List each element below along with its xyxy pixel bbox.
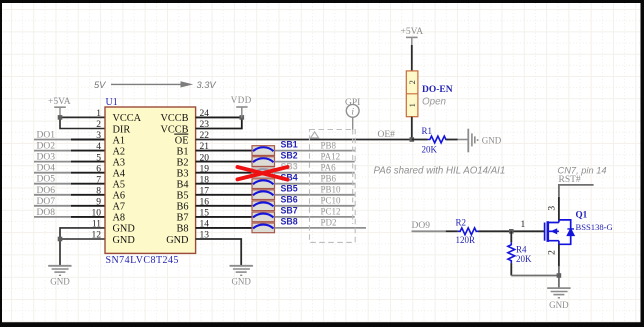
- svg-text:B3: B3: [176, 169, 188, 180]
- wire pin 23 to VDD: [196, 117, 242, 128]
- svg-text:GND: GND: [166, 235, 189, 246]
- wire R1 to ground stub: [458, 139, 469, 141]
- wire pin 21 to SB1: [196, 150, 252, 152]
- svg-text:GND: GND: [231, 277, 251, 287]
- svg-text:SB1: SB1: [281, 139, 298, 149]
- svg-text:11: 11: [92, 220, 101, 230]
- ground (chip right): [230, 266, 253, 287]
- port GPI: [345, 98, 360, 224]
- wire pin 19 to SB3: [196, 172, 252, 174]
- svg-text:U1: U1: [106, 97, 118, 108]
- resistor R2: [458, 228, 479, 235]
- svg-text:3: 3: [96, 131, 101, 141]
- svg-text:DO-EN: DO-EN: [422, 85, 453, 95]
- solder bridge SB1: [252, 146, 275, 156]
- svg-text:PD2: PD2: [321, 218, 337, 228]
- wire DO9: [412, 230, 458, 232]
- ground (chip left): [48, 266, 71, 287]
- svg-text:R1: R1: [422, 126, 433, 136]
- svg-text:120R: 120R: [456, 235, 476, 245]
- wire pin 13 to ground: [196, 239, 242, 266]
- svg-text:A6: A6: [113, 191, 126, 202]
- svg-text:2: 2: [547, 250, 557, 255]
- junction at +5VA/pin1: [58, 115, 63, 120]
- wire OE# net: pin 22 to R1: [196, 139, 412, 141]
- wire +5VA to connector pin 2: [411, 45, 413, 71]
- svg-text:BSS138-G: BSS138-G: [576, 222, 613, 232]
- wire pin 24 to VDD: [196, 116, 242, 118]
- wire SB8 to PD2: [275, 227, 367, 229]
- svg-text:SB7: SB7: [281, 206, 298, 216]
- svg-text:20K: 20K: [422, 145, 438, 155]
- svg-text:8: 8: [96, 186, 101, 196]
- svg-text:GND: GND: [50, 277, 70, 287]
- annotation 5V to 3.3V arrow: [94, 80, 216, 90]
- svg-text:B6: B6: [176, 202, 188, 213]
- wire SB2 to PA12: [275, 161, 355, 163]
- ghost triangle marker: [311, 132, 319, 138]
- svg-text:B4: B4: [176, 180, 188, 191]
- svg-text:A7: A7: [113, 202, 126, 213]
- svg-text:PA12: PA12: [321, 151, 341, 161]
- solder bridge SB4: [252, 179, 275, 189]
- svg-text:PB6: PB6: [321, 174, 337, 184]
- svg-text:CN7, pin 14: CN7, pin 14: [558, 165, 607, 175]
- svg-text:4: 4: [96, 142, 101, 152]
- svg-text:SB6: SB6: [281, 195, 298, 205]
- svg-text:3: 3: [547, 206, 557, 211]
- svg-text:SB2: SB2: [281, 150, 298, 160]
- red X (SB3 not fitted): [238, 167, 288, 180]
- svg-text:SN74LVC8T245: SN74LVC8T245: [106, 255, 179, 266]
- wire R2 to Q1 gate: [478, 230, 544, 232]
- svg-text:+5VA: +5VA: [48, 97, 71, 107]
- wire pin 16 to SB6: [196, 205, 252, 207]
- wire SB6 to PC10: [275, 205, 355, 207]
- junction at pin12/gnd: [58, 237, 63, 242]
- wire pin 12 to ground: [60, 239, 105, 266]
- power +5VA (top right): [400, 27, 423, 45]
- svg-text:OE#: OE#: [378, 130, 396, 140]
- svg-text:Q1: Q1: [576, 209, 588, 219]
- svg-text:7: 7: [96, 175, 101, 185]
- svg-text:OE: OE: [175, 135, 189, 146]
- power +5VA (left): [48, 97, 71, 118]
- wire DO4: [34, 172, 105, 174]
- ground (right of R1, sideways): [468, 129, 501, 153]
- svg-text:A2: A2: [113, 146, 126, 157]
- svg-text:B2: B2: [176, 157, 188, 168]
- wire connector pin 1 to OE#: [411, 117, 413, 140]
- svg-text:5: 5: [96, 153, 101, 163]
- resistor R4: [508, 231, 515, 275]
- wire SB5 to PB10: [275, 194, 355, 196]
- solder bridge SB7: [252, 212, 275, 222]
- svg-text:DO9: DO9: [412, 221, 431, 231]
- wire DO8: [34, 216, 105, 218]
- svg-text:GND: GND: [113, 224, 136, 235]
- svg-text:A5: A5: [113, 180, 126, 191]
- svg-text:B8: B8: [176, 224, 188, 235]
- wire SB7 to PC12: [275, 216, 355, 218]
- svg-text:SB8: SB8: [281, 217, 298, 227]
- svg-text:+5VA: +5VA: [400, 27, 423, 37]
- IC U1 SN74LVC8T245 body: [105, 107, 196, 253]
- wire pin 17 to SB5: [196, 194, 252, 196]
- svg-text:VCCA: VCCA: [113, 113, 142, 124]
- svg-text:1: 1: [407, 103, 417, 107]
- svg-text:RST#: RST#: [559, 175, 581, 185]
- wire Q1 source to ground: [558, 244, 560, 288]
- svg-text:PB10: PB10: [321, 185, 342, 195]
- svg-text:Open: Open: [422, 96, 446, 107]
- svg-text:PC10: PC10: [321, 196, 342, 206]
- connector J DO-EN body: [406, 71, 418, 117]
- svg-text:PC12: PC12: [321, 207, 341, 217]
- svg-text:VCCB: VCCB: [160, 113, 188, 124]
- svg-text:A1: A1: [113, 135, 126, 146]
- svg-text:GND: GND: [549, 300, 569, 310]
- solder bridge SB6: [252, 201, 275, 211]
- solder bridge SB8: [252, 223, 275, 233]
- wire pin 20 to SB2: [196, 161, 252, 163]
- wire R4 to Q1 source/gnd: [511, 275, 559, 277]
- svg-text:DIR: DIR: [113, 124, 131, 135]
- wire DO5: [34, 183, 105, 185]
- wire +5VA to pin 2: [60, 117, 105, 128]
- solder bridge SB3: [252, 168, 275, 178]
- svg-text:10: 10: [92, 209, 102, 219]
- svg-text:A3: A3: [113, 157, 126, 168]
- svg-text:20K: 20K: [516, 254, 532, 264]
- svg-text:SB5: SB5: [281, 184, 298, 194]
- svg-text:GND: GND: [482, 135, 502, 145]
- svg-text:3.3V: 3.3V: [197, 80, 217, 90]
- wire pin 15 to SB7: [196, 216, 252, 218]
- wire DO1: [34, 139, 105, 141]
- svg-text:B1: B1: [176, 146, 188, 157]
- junction at source/gnd: [557, 273, 562, 278]
- wire DO6: [34, 194, 105, 196]
- svg-text:5V: 5V: [94, 80, 106, 90]
- svg-text:12: 12: [92, 231, 102, 241]
- svg-text:PB8: PB8: [321, 140, 337, 150]
- wire DO3: [34, 161, 105, 163]
- ground (bottom right): [547, 288, 570, 310]
- wire Q1 drain to RST#: [559, 185, 594, 220]
- svg-text:PA6: PA6: [321, 163, 337, 173]
- svg-text:VDD: VDD: [231, 95, 252, 105]
- wire SB4 to PB6: [275, 183, 355, 185]
- svg-text:PA6 shared with HIL AO14/AI1: PA6 shared with HIL AO14/AI1: [374, 166, 506, 177]
- wire SB3 to PA6: [275, 172, 355, 174]
- wire SB1 to PB8: [275, 150, 355, 152]
- svg-text:2: 2: [407, 80, 417, 84]
- junction at OE#/R1: [410, 137, 415, 142]
- wire +5VA to pin 1: [60, 116, 105, 118]
- OE overline: [174, 133, 188, 135]
- svg-text:A4: A4: [113, 169, 126, 180]
- wire pin 14 to SB8: [196, 227, 252, 229]
- resistor R1: [412, 136, 458, 143]
- svg-text:1: 1: [521, 220, 526, 230]
- solder bridge SB5: [252, 190, 275, 200]
- ghost connector outline (alternate part, not fitted): [310, 130, 356, 243]
- wire DO7: [34, 205, 105, 207]
- solder bridge SB2: [252, 157, 275, 167]
- svg-text:GND: GND: [113, 235, 136, 246]
- junction at VDD: [240, 115, 245, 120]
- svg-text:B7: B7: [176, 213, 188, 224]
- svg-text:9: 9: [96, 198, 101, 208]
- svg-text:i: i: [351, 108, 354, 118]
- wire pin 11 to ground: [60, 228, 105, 239]
- svg-text:1: 1: [96, 109, 101, 119]
- wire DO2: [34, 150, 105, 152]
- transistor Q1 BSS138-G: [545, 220, 574, 244]
- svg-text:6: 6: [96, 164, 101, 174]
- svg-text:B5: B5: [176, 191, 188, 202]
- svg-text:A8: A8: [113, 213, 126, 224]
- svg-text:2: 2: [96, 120, 101, 130]
- power VDD: [231, 95, 252, 117]
- wire pin 18 to SB4: [196, 183, 252, 185]
- svg-text:R2: R2: [456, 218, 467, 228]
- junction at R4: [509, 229, 514, 234]
